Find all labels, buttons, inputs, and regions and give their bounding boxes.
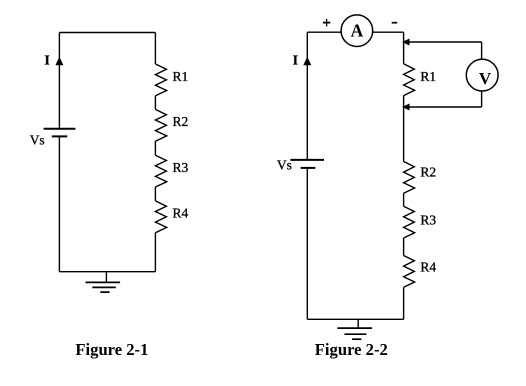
wire: segment R1-R2 Fig 2-1 (154, 96, 156, 110)
svg-text:Vs: Vs (30, 132, 45, 147)
wire: segment R3-R4 Fig 2-1 (154, 187, 156, 201)
wire: left wire upper (top to Vs+) Fig 2-1 (58, 33, 60, 129)
battery Vs (Fig 2-2) (290, 160, 324, 168)
arrowhead: voltmeter bottom tap points left into node (402, 104, 409, 111)
wire: voltmeter top tap Fig 2-2 (404, 41, 482, 43)
wire: top wire Fig 2-2 (307, 31, 403, 33)
wire: left wire lower Fig 2-2 (306, 168, 308, 319)
resistor R1 (Fig 2-2) (404, 64, 415, 96)
svg-text:R2: R2 (173, 114, 189, 129)
wire: left wire lower (Vs- to bottom) Fig 2-1 (58, 136, 60, 271)
resistor R3 (Fig 2-2) (404, 206, 415, 238)
svg-text:I: I (45, 53, 50, 68)
wire: bottom wire Fig 2-1 (59, 271, 155, 273)
current arrow I (Fig 2-1) (55, 57, 63, 66)
svg-text:Figure 2-2: Figure 2-2 (315, 340, 388, 359)
wire: right wire R1 to R2 Fig 2-2 (403, 96, 405, 162)
svg-text:R4: R4 (420, 259, 436, 274)
wire: right wire bottom (R4 to bottom) Fig 2-2 (403, 287, 405, 319)
wire: right wire R3 to R4 Fig 2-2 (403, 238, 405, 256)
wire: right wire bottom (R4 to bottom) Fig 2-1 (154, 233, 156, 272)
svg-text:R1: R1 (420, 69, 436, 84)
resistor R2 (Fig 2-1) (155, 109, 166, 141)
svg-text:V: V (479, 69, 492, 88)
wire: left wire upper Fig 2-2 (306, 32, 308, 160)
resistor R1 (Fig 2-1) (155, 64, 166, 96)
wire: right wire top (to R1) Fig 2-2 (403, 32, 405, 64)
label + (ammeter polarity) (323, 19, 330, 27)
svg-text:R3: R3 (420, 212, 436, 227)
svg-text:Vs: Vs (277, 157, 292, 172)
wire: voltmeter vertical branch (481, 42, 483, 107)
wire: bottom wire Fig 2-2 (307, 318, 403, 320)
current arrow I (Fig 2-2) (303, 57, 311, 66)
svg-text:R2: R2 (420, 165, 436, 180)
ground (Fig 2-1) (86, 272, 121, 292)
label - (ammeter polarity) (392, 22, 398, 24)
svg-text:A: A (351, 20, 364, 40)
resistor R2 (Fig 2-2) (404, 162, 415, 194)
battery Vs (Fig 2-1) (44, 129, 76, 137)
svg-text:Figure 2-1: Figure 2-1 (75, 340, 148, 359)
svg-text:R3: R3 (173, 160, 189, 175)
wire: top wire Fig 2-1 (59, 32, 155, 34)
resistor R3 (Fig 2-1) (155, 155, 166, 187)
wire: right wire top (to R1) Fig 2-1 (154, 33, 156, 65)
resistor R4 (Fig 2-1) (155, 201, 166, 233)
wire: voltmeter bottom tap Fig 2-2 (404, 106, 482, 108)
ground (Fig 2-2) (337, 319, 372, 339)
svg-text:I: I (293, 53, 298, 68)
wire: right wire R2 to R3 Fig 2-2 (403, 193, 405, 206)
ammeter U1 (341, 15, 373, 47)
wire: segment R2-R3 Fig 2-1 (154, 141, 156, 155)
arrowhead: voltmeter top tap points left into node (402, 39, 409, 46)
voltmeter U2 (466, 59, 498, 91)
svg-text:R1: R1 (173, 69, 189, 84)
resistor R4 (Fig 2-2) (404, 256, 415, 288)
svg-text:R4: R4 (173, 205, 189, 220)
